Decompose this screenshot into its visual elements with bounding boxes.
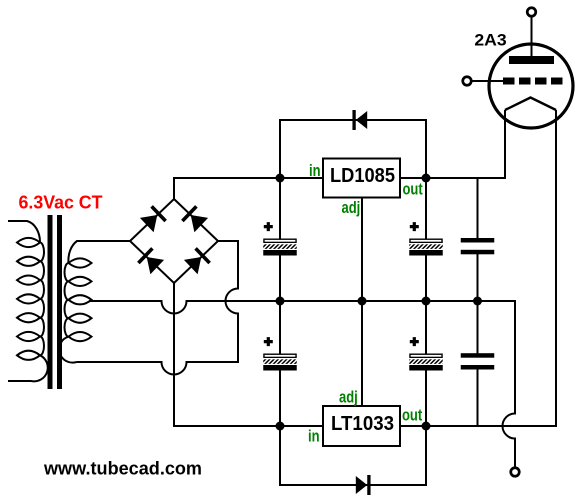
wire bridge top to LD1085 in (node A)	[174, 178, 323, 199]
protection diode D5	[354, 110, 367, 130]
junction node out-	[422, 422, 431, 431]
tube filament	[505, 98, 556, 111]
junction node in-	[276, 422, 285, 431]
svg-text:in: in	[309, 163, 321, 181]
protection diode D6	[356, 475, 369, 495]
junction node ct-right	[422, 297, 431, 306]
svg-text:out: out	[402, 407, 422, 425]
svg-text:LD1085: LD1085	[330, 165, 395, 187]
wire left cap rail segments	[279, 178, 281, 426]
junction node ct-film	[473, 297, 482, 306]
transformer secondary winding	[59, 241, 130, 363]
wire LD1085 out to tube filament left	[400, 110, 505, 178]
svg-text:6.3Vac CT: 6.3Vac CT	[19, 192, 103, 213]
svg-text:in: in	[308, 428, 320, 446]
bridge diode D1 (left-to-top)	[140, 206, 166, 232]
svg-text:adj: adj	[339, 389, 358, 407]
bridge diode D2 (right-to-top)	[182, 206, 208, 232]
electrolytic capacitor C2	[263, 337, 297, 370]
svg-text:out: out	[403, 181, 423, 199]
tube grid	[471, 78, 563, 85]
wire bridge bottom to LT1033 in	[174, 283, 323, 426]
terminal grid pin	[463, 77, 472, 86]
svg-text:adj: adj	[342, 200, 361, 218]
bridge diode D4 (bottom-to-right)	[184, 248, 210, 274]
regulator U1 LD1085	[323, 159, 400, 198]
tube 2A3 envelope	[489, 44, 573, 128]
bridge diode D3 (bottom-to-left)	[138, 248, 164, 274]
tube plate	[509, 16, 554, 64]
film capacitor C5	[461, 238, 495, 254]
electrolytic capacitor C3	[409, 222, 443, 255]
wire adj rail U1-U2	[361, 198, 363, 407]
electrolytic capacitor C1	[263, 222, 297, 255]
terminal centre tap out	[511, 468, 520, 477]
wire secondary bottom to bridge right vertex	[77, 241, 239, 375]
svg-text:LT1033: LT1033	[331, 413, 394, 435]
junction node out+	[422, 174, 431, 183]
wire LT1033 out to tube filament right	[400, 110, 556, 426]
junction node ct-left	[276, 297, 285, 306]
terminal plate pin	[527, 8, 536, 17]
junction node ct-adj	[358, 297, 367, 306]
transformer primary winding	[8, 221, 48, 381]
wire film cap rail segments	[477, 178, 479, 426]
wire top bypass diode loop	[280, 120, 426, 178]
svg-text:2A3: 2A3	[474, 30, 506, 49]
junction node in+	[276, 174, 285, 183]
wire right cap rail segments	[425, 178, 427, 426]
regulator U2 LT1033	[323, 406, 400, 446]
electrolytic capacitor C4	[409, 337, 443, 370]
diode bridge outline	[130, 199, 218, 283]
svg-text:www.tubecad.com: www.tubecad.com	[43, 459, 202, 479]
wire centre tap line	[89, 301, 515, 468]
wire bottom bypass diode loop	[280, 426, 426, 485]
transformer core	[48, 215, 63, 389]
film capacitor C6	[461, 353, 495, 369]
